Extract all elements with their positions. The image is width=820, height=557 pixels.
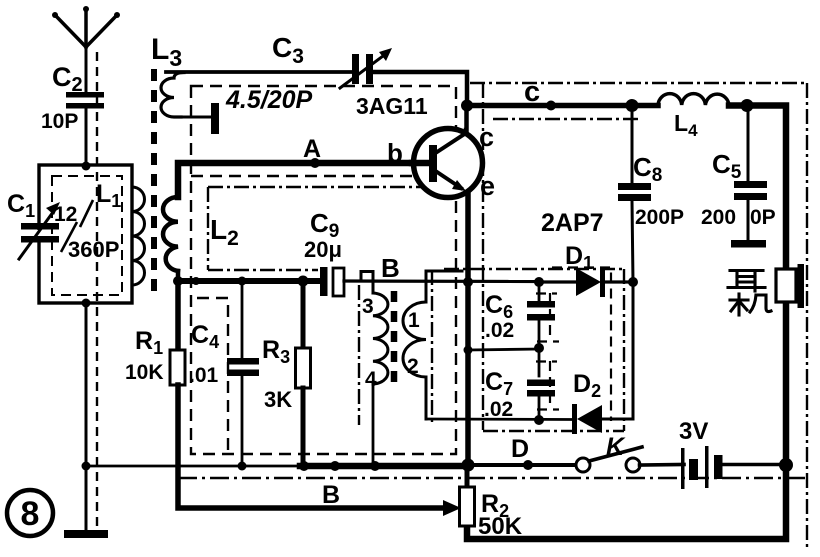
inductor L1 — [132, 187, 145, 285]
inductor L2 — [163, 197, 178, 271]
wire: detector right vertical — [632, 282, 635, 419]
node: ant/ground junction — [82, 462, 91, 471]
capacitor C6 — [527, 282, 555, 348]
R1 feed wire (thick, to R2 wiper) — [175, 281, 181, 350]
resistor R3 — [296, 281, 311, 466]
node: collector junction — [461, 100, 473, 112]
svg-text:12: 12 — [54, 203, 77, 226]
svg-text:K: K — [606, 433, 626, 461]
svg-text:.02: .02 — [485, 319, 514, 342]
wire: emitter to C6/C7 — [468, 349, 539, 350]
dashed detector outline — [552, 268, 611, 422]
node: B primary pin4 junction — [370, 461, 380, 471]
svg-text:D2: D2 — [573, 370, 601, 401]
svg-text:0P: 0P — [750, 206, 776, 229]
capacitor C8 — [618, 105, 651, 282]
B bus (thick east part) — [300, 463, 470, 470]
antenna dashed lead — [96, 52, 98, 528]
wire R1 to wiper arrow — [178, 385, 444, 508]
A bus: L2 top to base — [178, 163, 426, 197]
svg-text:e: e — [480, 171, 495, 201]
B primary bottom lead — [372, 384, 375, 466]
node: emitter/C6C7 link — [464, 346, 473, 355]
wire: top bus to L4 — [467, 103, 658, 109]
diode D2 — [426, 404, 633, 434]
node: C5 junction — [741, 99, 754, 112]
dashed box: RF section — [191, 86, 456, 454]
dashed fragments around C6 — [536, 268, 611, 422]
wire: C9 to B primary and emitter — [344, 279, 539, 283]
node: C2/tank junction — [82, 162, 91, 171]
resistor R2 — [460, 466, 475, 526]
emitter vertical wire — [465, 190, 471, 466]
switch K — [576, 447, 684, 472]
svg-text:c: c — [524, 76, 540, 108]
label erji (earphone) hand-drawn CJK — [728, 271, 771, 316]
svg-text:2: 2 — [407, 355, 419, 378]
svg-text:C2: C2 — [52, 62, 83, 96]
L2 bottom lead — [176, 271, 181, 281]
svg-text:C5: C5 — [712, 149, 742, 183]
svg-text:C3: C3 — [272, 32, 304, 68]
svg-text:3K: 3K — [264, 387, 292, 412]
svg-text:360P: 360P — [68, 237, 119, 262]
wire tank bottom to ground — [82, 299, 91, 532]
svg-text:L2: L2 — [210, 214, 239, 250]
resistor R1 — [170, 350, 185, 385]
node: D1 cathode — [628, 277, 638, 287]
svg-text:50K: 50K — [478, 513, 523, 540]
svg-text:3: 3 — [362, 295, 374, 318]
node: C4 bottom junction — [238, 462, 247, 471]
variable capacitor C1 — [19, 202, 60, 259]
L3 terminal bar — [211, 103, 219, 134]
svg-text:.02: .02 — [484, 398, 513, 421]
svg-text:C6: C6 — [485, 291, 513, 322]
dash-dot box: output module — [178, 83, 808, 549]
battery 3V — [681, 446, 786, 489]
node: battery/right wire — [779, 458, 793, 472]
svg-text:10P: 10P — [41, 110, 78, 133]
node: C6/C7 junction — [534, 343, 544, 353]
emitter bus to C9 — [178, 278, 321, 284]
transformer B secondary winding (1-2) — [403, 271, 462, 419]
transformer B primary lead — [361, 272, 373, 294]
node: C7 bottom — [534, 415, 544, 425]
transformer B primary winding (3-4) — [373, 293, 388, 384]
capacitor C2 — [66, 92, 104, 166]
svg-text:200: 200 — [701, 206, 736, 229]
svg-text:8: 8 — [21, 495, 40, 533]
inductor L3 — [161, 73, 211, 118]
svg-text:C7: C7 — [485, 368, 513, 399]
node D — [523, 460, 533, 470]
svg-text:3V: 3V — [679, 418, 708, 445]
svg-text:200P: 200P — [635, 206, 684, 229]
svg-text:4.5/20P: 4.5/20P — [225, 86, 313, 114]
svg-text:L1: L1 — [96, 180, 121, 211]
svg-text:4: 4 — [365, 368, 377, 391]
svg-text:D: D — [511, 435, 529, 463]
capacitor C7 — [527, 348, 555, 420]
node: L2/R1 junction — [173, 276, 183, 286]
node: C8 junction — [626, 99, 639, 112]
ground — [64, 530, 108, 538]
dashed C4 partition — [197, 298, 228, 457]
svg-text:R1: R1 — [135, 327, 163, 358]
wire: L3 to C3 — [166, 70, 352, 74]
svg-text:2AP7: 2AP7 — [541, 209, 604, 237]
D wire to switch — [468, 463, 578, 467]
node: emitter/R2/D junction — [462, 459, 475, 472]
svg-text:C8: C8 — [633, 152, 662, 186]
svg-text:b: b — [387, 138, 403, 168]
svg-text:D1: D1 — [565, 242, 593, 273]
svg-text:L4: L4 — [674, 110, 698, 140]
transformer B core — [391, 291, 398, 389]
dashed divider under A bus — [191, 175, 456, 177]
B bus (thin west part) — [86, 465, 304, 468]
dashed fragments around C7 — [536, 360, 557, 362]
svg-text:C4: C4 — [191, 321, 219, 352]
svg-text:B: B — [322, 481, 340, 509]
earphone — [776, 269, 796, 302]
svg-text:20μ: 20μ — [304, 237, 342, 262]
antenna — [52, 6, 120, 93]
svg-text:.01: .01 — [189, 364, 219, 387]
svg-text:c: c — [479, 122, 494, 152]
svg-text:L3: L3 — [151, 33, 182, 71]
tank box (C1/L1) — [39, 165, 132, 303]
node: R3 bottom junction — [299, 461, 309, 471]
figure number circle 8 — [7, 490, 53, 536]
node A — [310, 158, 320, 168]
inductor L4 — [658, 94, 729, 105]
diode D1 — [539, 267, 633, 297]
wire: C3 to collector node — [373, 72, 467, 103]
svg-text:A: A — [303, 135, 321, 163]
collector lead — [464, 105, 469, 133]
node: R3 top — [298, 276, 309, 287]
capacitor C9 (electrolytic) — [320, 267, 344, 296]
tank inner dashed box — [52, 176, 122, 295]
node: emitter/detector junction — [463, 277, 473, 287]
svg-text:B: B — [381, 253, 400, 283]
node c dot — [546, 101, 556, 111]
svg-text:C1: C1 — [7, 190, 35, 221]
node: C4 top — [238, 277, 247, 286]
svg-text:10K: 10K — [125, 361, 164, 384]
capacitor C5 — [731, 105, 767, 248]
svg-text:3AG11: 3AG11 — [356, 93, 428, 119]
wiper arrowhead — [443, 500, 461, 516]
trimmer capacitor C3 — [340, 48, 392, 88]
svg-text:R3: R3 — [262, 336, 290, 367]
node B junction — [330, 461, 340, 471]
ferrite core (L1/L2/L3) — [151, 69, 157, 300]
transistor 3AG11 — [412, 129, 483, 198]
svg-text:1: 1 — [408, 309, 420, 332]
wire: L4 to right edge, down right side, bottom loop to R2 — [467, 106, 786, 540]
capacitor C4 — [227, 281, 259, 466]
node: C6 top — [534, 277, 544, 287]
dash-dot box: oscillator module — [208, 187, 435, 425]
